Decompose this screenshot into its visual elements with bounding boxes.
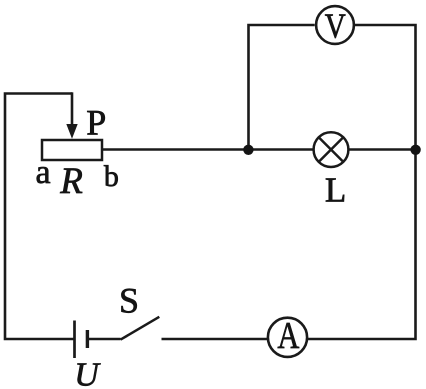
svg-text:a: a	[35, 154, 50, 191]
wire rheostat to lamp (through left junction)	[102, 148, 313, 151]
node left junction dot	[243, 145, 253, 155]
wire left loop: top wire, left rail, bottom wire to battery	[5, 94, 74, 340]
wire lamp to right junction	[349, 148, 415, 151]
voltmeter V1 circle	[316, 6, 354, 44]
svg-text:A: A	[277, 315, 299, 357]
ammeter A1 circle	[268, 318, 307, 357]
battery long plate	[73, 321, 76, 359]
svg-text:P: P	[86, 102, 106, 142]
wire voltmeter to right rail, down right rail, to ammeter	[308, 25, 416, 339]
wire voltmeter branch: up from left junction, across to voltmeter	[249, 25, 315, 151]
slider arrow head P	[66, 124, 77, 139]
lamp L circle	[314, 132, 349, 167]
switch S blade	[121, 317, 160, 340]
svg-text:R: R	[59, 161, 83, 202]
wire battery to switch	[88, 338, 121, 341]
svg-text:S: S	[119, 280, 139, 320]
svg-text:L: L	[325, 170, 346, 209]
lamp cross	[319, 137, 344, 162]
resistor R (rheostat box)	[42, 140, 102, 160]
svg-text:b: b	[104, 160, 119, 193]
wire slider drop	[71, 92, 74, 127]
svg-text:V: V	[325, 8, 346, 46]
wire switch to ammeter	[162, 338, 268, 341]
battery short plate	[86, 330, 89, 348]
svg-text:U: U	[74, 357, 101, 389]
node right junction dot	[410, 145, 420, 155]
